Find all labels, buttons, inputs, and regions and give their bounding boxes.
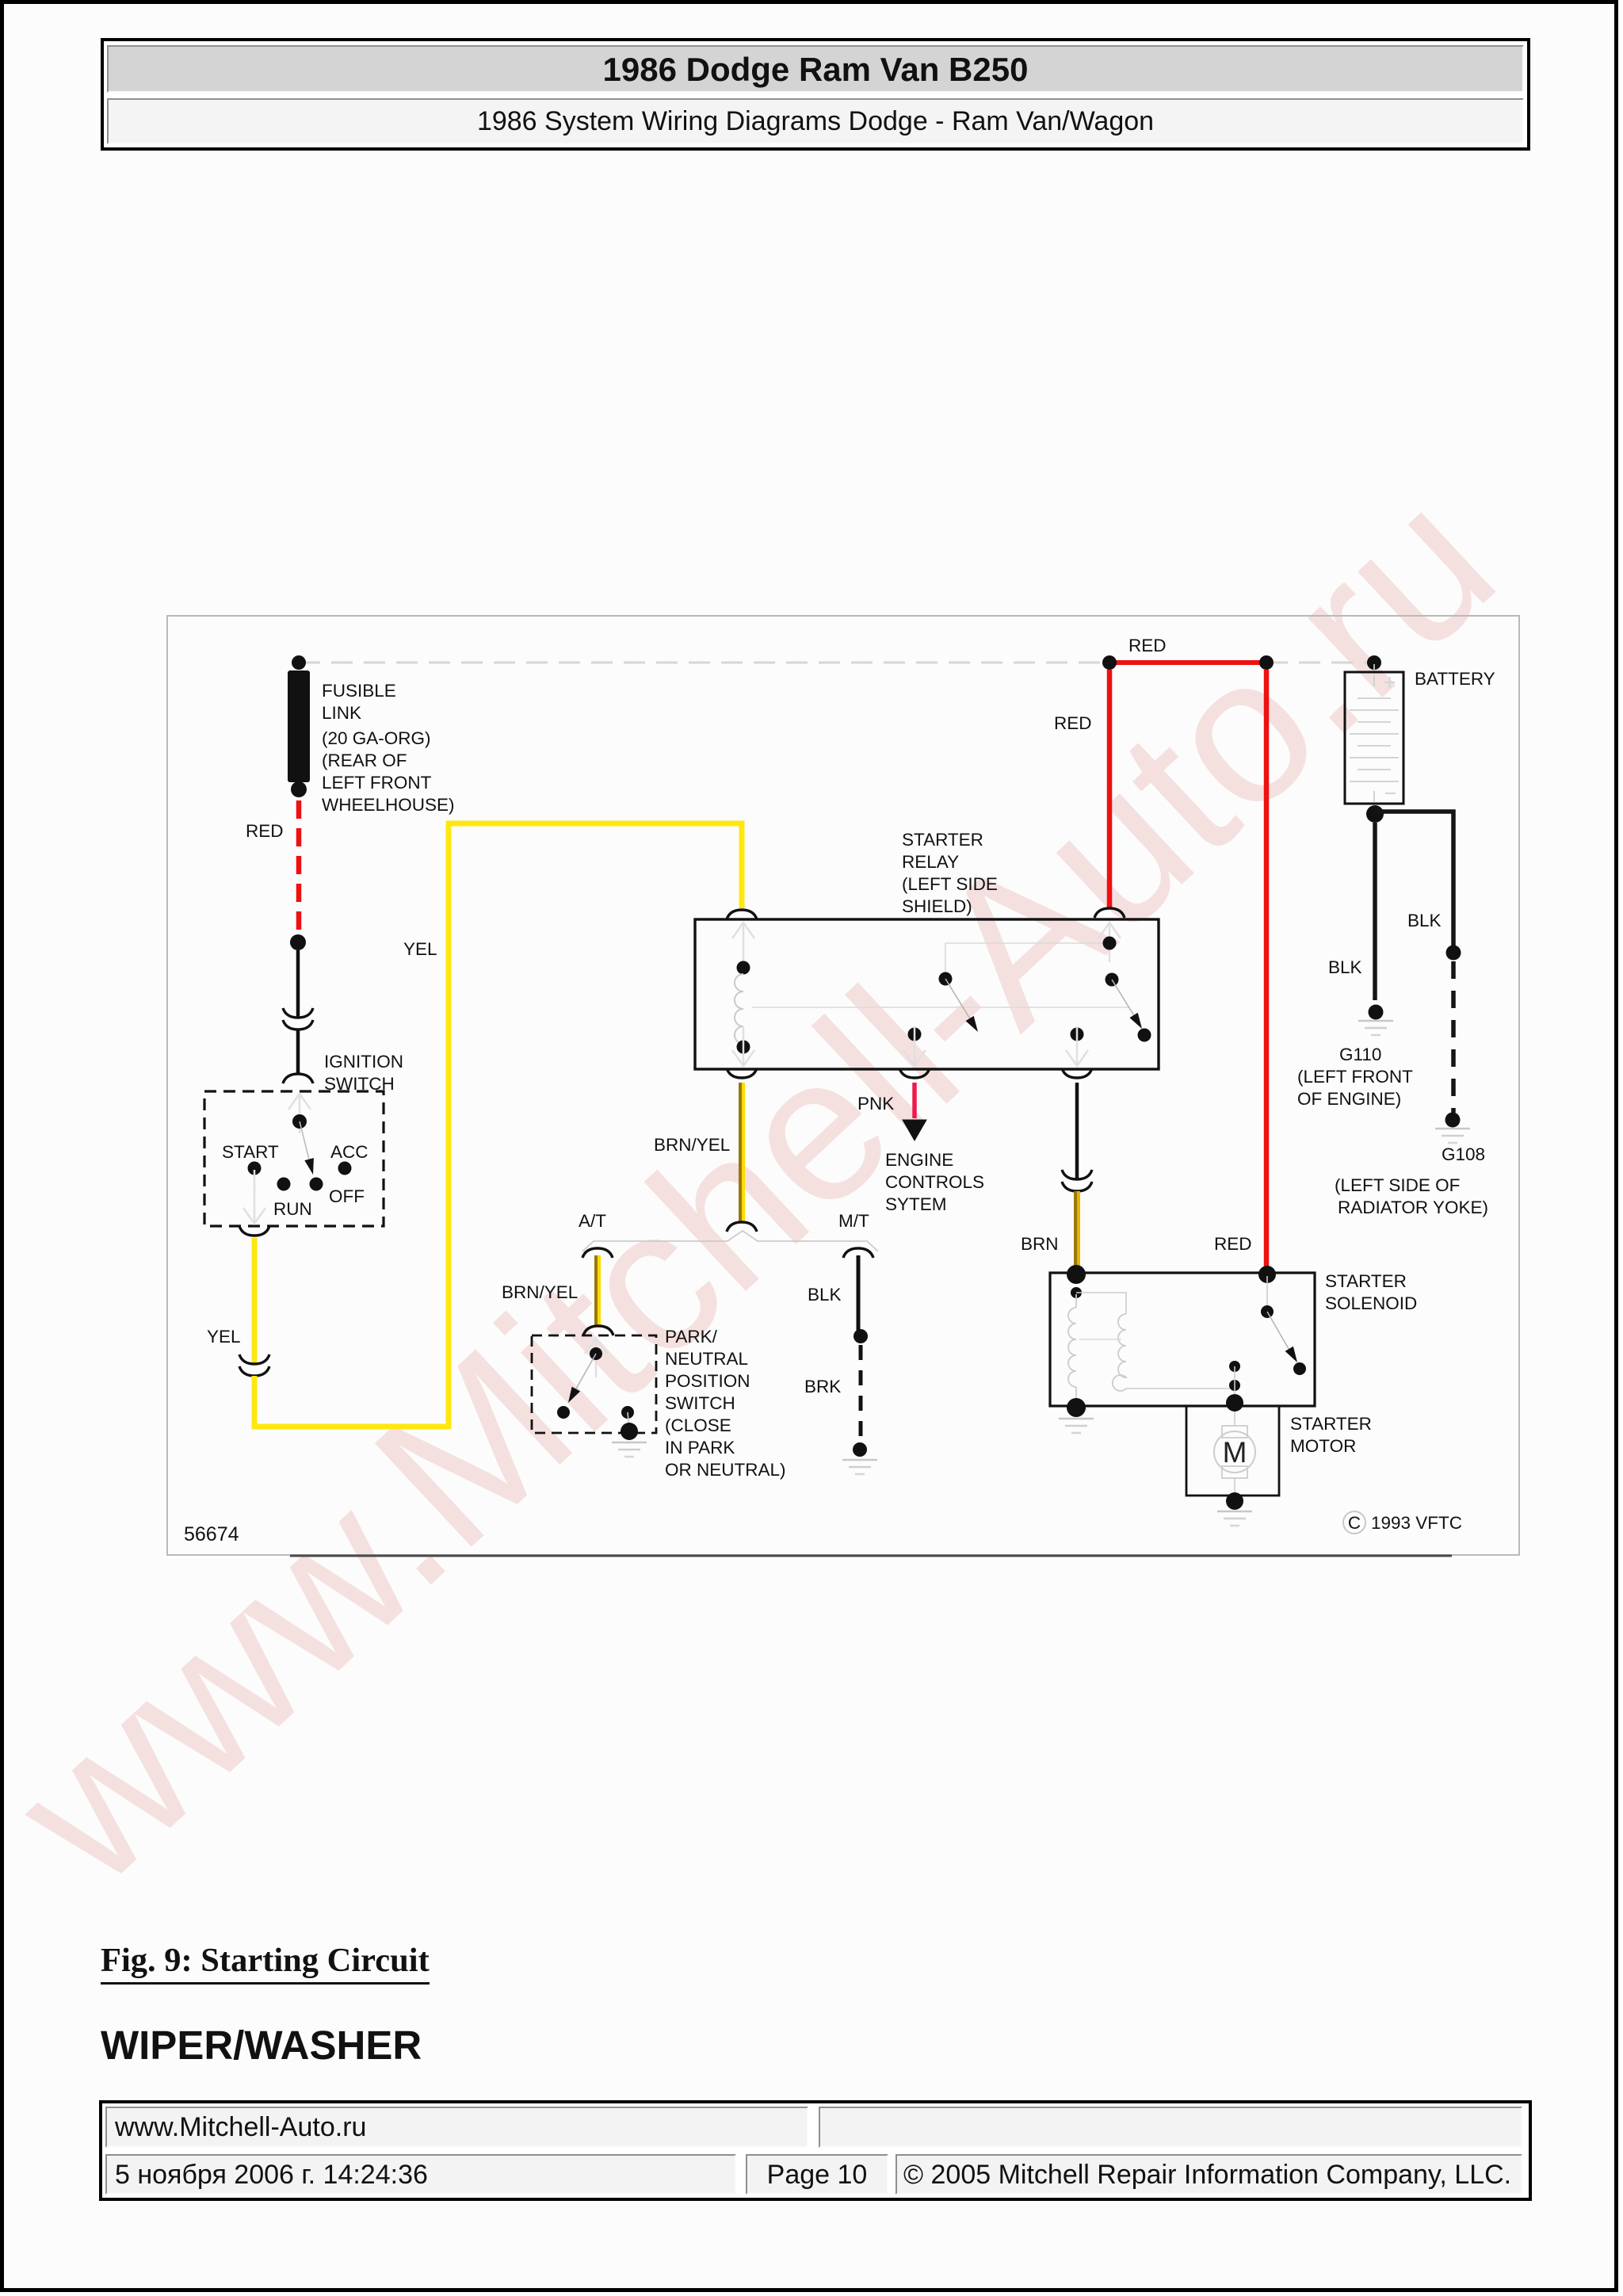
ground M/T	[842, 1460, 877, 1474]
svg-text:SOLENOID: SOLENOID	[1325, 1293, 1417, 1313]
wire: top dashed bus right	[1266, 662, 1374, 664]
wire RED down to relay	[1107, 670, 1113, 907]
connector PNK below relay	[899, 1068, 930, 1078]
svg-text:IN PARK: IN PARK	[665, 1438, 735, 1457]
solenoid coil 2	[1113, 1314, 1126, 1391]
svg-text:ENGINE: ENGINE	[885, 1150, 953, 1170]
svg-text:BRN/YEL: BRN/YEL	[654, 1135, 730, 1155]
svg-text:STARTER: STARTER	[1325, 1271, 1407, 1291]
starter solenoid box	[1050, 1273, 1315, 1406]
motor M circle	[1214, 1431, 1255, 1473]
wire BLK battery to right	[1377, 812, 1453, 946]
relay right switch arm	[1112, 980, 1135, 1017]
wire BRN/YEL A/T branch (two tone)	[594, 1255, 598, 1325]
P/N bottom dot	[621, 1423, 638, 1440]
node dot G110	[1369, 1005, 1384, 1020]
svg-text:C: C	[1348, 1513, 1361, 1533]
solenoid coil 2 out link	[1126, 1388, 1230, 1389]
motor brush bottom	[1222, 1466, 1247, 1478]
svg-text:BLK: BLK	[1407, 911, 1442, 930]
relay right input pin arrow	[1098, 923, 1121, 962]
svg-text:M/T: M/T	[838, 1211, 869, 1231]
node junction dot 2	[1259, 655, 1274, 670]
starter relay box	[695, 919, 1159, 1069]
node dot	[1446, 946, 1461, 961]
svg-text:STARTER: STARTER	[902, 830, 983, 850]
svg-text:RELAY: RELAY	[902, 852, 959, 872]
wire BLK relay to connector	[1075, 1083, 1079, 1179]
ground P/N	[612, 1442, 647, 1457]
relay BRN pin dot	[1071, 1028, 1084, 1041]
relay mid switch pivot dot	[939, 972, 953, 986]
starter motor box	[1186, 1406, 1279, 1496]
svg-text:RED: RED	[1128, 636, 1167, 655]
connector pair in-line BRN	[1062, 1170, 1092, 1179]
node dot G108	[1445, 1113, 1461, 1128]
svg-text:PARK/: PARK/	[665, 1327, 718, 1347]
connector below ignition switch	[239, 1226, 269, 1236]
svg-text:A/T: A/T	[579, 1211, 606, 1231]
svg-text:BRN/YEL: BRN/YEL	[502, 1282, 578, 1302]
fusible link FL	[292, 655, 306, 670]
relay coil tap line	[752, 1007, 1128, 1008]
relay coil pin arrow top	[732, 923, 754, 962]
svg-text:LEFT FRONT: LEFT FRONT	[322, 773, 432, 793]
wire YEL main run	[254, 823, 742, 1427]
P/N left contact dot	[557, 1406, 570, 1419]
solenoid switch arm	[1267, 1312, 1291, 1353]
wire: top dashed bus left	[299, 662, 1109, 664]
svg-text:(LEFT FRONT: (LEFT FRONT	[1297, 1067, 1413, 1087]
relay coil pin arrow bottom	[732, 1026, 754, 1066]
svg-text:1993 VFTC: 1993 VFTC	[1371, 1513, 1462, 1533]
WIPER/WASHER heading	[101, 2022, 422, 2069]
connector BRN/YEL at branch	[727, 1222, 757, 1232]
battery bottom dot	[1366, 805, 1384, 823]
connector at ignition switch	[283, 1074, 313, 1083]
A/T M/T branch bracket	[582, 1231, 878, 1251]
svg-text:NEUTRAL: NEUTRAL	[665, 1349, 748, 1369]
relay BRN pin arrow	[1066, 1026, 1088, 1066]
battery minus sign	[1385, 793, 1396, 794]
motor ground stem	[1234, 1478, 1235, 1499]
contact RUN dot	[277, 1178, 291, 1191]
arrow to engine controls	[903, 1120, 926, 1140]
solenoid coil mid link	[1079, 1339, 1121, 1340]
svg-text:BATTERY: BATTERY	[1415, 669, 1495, 689]
diagram inner border dark segment	[290, 1555, 1452, 1557]
park/neutral position switch box	[532, 1335, 656, 1433]
svg-text:M: M	[1223, 1436, 1247, 1469]
svg-text:RED: RED	[1214, 1234, 1252, 1254]
copyright stamp	[1343, 1511, 1365, 1534]
solenoid small node dot	[1071, 1287, 1082, 1298]
wire BRN/YEL (two tone)	[739, 1083, 742, 1221]
battery plus sign	[1384, 677, 1395, 688]
svg-text:PNK: PNK	[857, 1094, 894, 1114]
svg-text:G108: G108	[1442, 1144, 1485, 1164]
ground G108	[1435, 1129, 1470, 1143]
connector A/T branch	[582, 1248, 613, 1258]
svg-text:SHIELD): SHIELD)	[902, 896, 972, 916]
svg-text:YEL: YEL	[207, 1327, 241, 1347]
wire YEL from ignition switch	[252, 1238, 258, 1363]
svg-text:YEL: YEL	[403, 939, 437, 959]
solenoid BRN input dot	[1067, 1265, 1086, 1284]
svg-text:www.Mitchell-Auto.ru: www.Mitchell-Auto.ru	[0, 446, 1536, 1928]
solenoid switch stem	[1266, 1276, 1268, 1308]
P/N pivot dot	[590, 1347, 602, 1360]
connector YEL at relay	[727, 910, 757, 919]
solenoid switch end dot	[1293, 1362, 1306, 1375]
P/N ground link	[628, 1412, 629, 1430]
wire BLK battery to G110	[1373, 823, 1377, 1000]
relay right switch end dot	[1138, 1029, 1151, 1042]
connector M/T branch	[843, 1248, 873, 1258]
svg-text:56674: 56674	[184, 1523, 239, 1545]
svg-text:(LEFT SIDE: (LEFT SIDE	[902, 874, 998, 894]
relay right node dot	[1103, 937, 1117, 950]
battery plates	[1350, 675, 1399, 802]
svg-text:OFF: OFF	[329, 1186, 365, 1206]
svg-text:G110: G110	[1339, 1045, 1381, 1064]
solenoid coil 1	[1075, 1294, 1077, 1308]
svg-text:FUSIBLE: FUSIBLE	[322, 681, 396, 701]
wire RED top horizontal	[1109, 660, 1266, 665]
svg-text:RUN: RUN	[273, 1199, 312, 1219]
node dot	[854, 1329, 868, 1343]
switch pivot dot	[292, 1114, 307, 1129]
wire BRK dashed	[859, 1345, 863, 1442]
ground G110	[1358, 1021, 1393, 1035]
connector BRN/YEL below relay	[727, 1068, 757, 1078]
svg-text:STARTER: STARTER	[1290, 1414, 1372, 1434]
P/N switch arm	[575, 1354, 596, 1390]
relay switch link line	[945, 943, 1109, 979]
relay coil top dot	[737, 961, 750, 975]
wire BLK dashed to G108	[1451, 961, 1456, 1113]
svg-text:BLK: BLK	[808, 1285, 842, 1305]
svg-text:SWITCH: SWITCH	[665, 1393, 735, 1413]
header row 2	[107, 98, 1524, 144]
P/N pin arrow	[585, 1338, 607, 1377]
svg-text:(LEFT SIDE OF: (LEFT SIDE OF	[1335, 1175, 1460, 1195]
solenoid motor big dot	[1226, 1394, 1243, 1412]
contact OFF dot	[310, 1178, 323, 1191]
wire BRN to solenoid	[1074, 1191, 1077, 1268]
svg-text:OR NEUTRAL): OR NEUTRAL)	[665, 1460, 786, 1480]
ignition switch box	[204, 1091, 384, 1226]
relay mid switch arm	[945, 979, 971, 1020]
pin arrow (ignition input)	[288, 1094, 311, 1133]
node junction dot	[1102, 655, 1117, 670]
svg-text:START: START	[222, 1142, 279, 1162]
wire RED dashed (fusible link to ignition switch)	[296, 800, 302, 935]
solenoid motor node dots	[1229, 1361, 1240, 1372]
solenoid red input dot	[1258, 1266, 1276, 1283]
svg-text:BRK: BRK	[804, 1377, 841, 1396]
battery top dot	[1367, 655, 1381, 670]
switch arm	[300, 1121, 310, 1163]
relay PNK pin dot	[908, 1028, 922, 1041]
ground solenoid	[1059, 1419, 1094, 1433]
relay PNK pin arrow	[903, 1026, 926, 1066]
contact ACC dot	[338, 1162, 352, 1175]
header row 1	[107, 45, 1524, 93]
svg-text:ACC: ACC	[330, 1142, 369, 1162]
solenoid switch pivot dot	[1261, 1305, 1274, 1318]
relay right switch pivot dot	[1106, 973, 1119, 987]
battery B1	[1345, 672, 1403, 804]
solenoid bottom-left dot	[1067, 1398, 1086, 1417]
Fig caption	[101, 1941, 430, 1980]
svg-text:(REAR OF: (REAR OF	[322, 751, 407, 770]
node dot	[853, 1442, 867, 1457]
svg-text:CONTROLS: CONTROLS	[885, 1172, 984, 1192]
connector pair in-line	[283, 1008, 313, 1018]
header outer box	[101, 38, 1530, 151]
svg-text:LINK: LINK	[322, 703, 361, 723]
solenoid coil 2 link	[1076, 1293, 1126, 1314]
svg-text:WHEELHOUSE): WHEELHOUSE)	[322, 795, 455, 815]
connector RED at relay	[1094, 908, 1125, 918]
node dot	[290, 934, 306, 950]
svg-text:BRN: BRN	[1021, 1234, 1059, 1254]
svg-text:OF ENGINE): OF ENGINE)	[1297, 1089, 1401, 1109]
svg-text:RED: RED	[1054, 713, 1092, 733]
wire RED junction to solenoid	[1264, 670, 1270, 1270]
diagram frame	[167, 616, 1519, 1555]
motor ground dot	[1226, 1492, 1243, 1510]
wire black to connector	[296, 950, 300, 1018]
svg-text:BLK: BLK	[1328, 957, 1362, 977]
connector pair in-line YEL	[239, 1354, 269, 1364]
svg-text:IGNITION: IGNITION	[324, 1052, 403, 1072]
pin arrow START output	[243, 1184, 265, 1224]
P/N right contact dot	[621, 1406, 634, 1419]
footer outer box	[99, 2100, 1532, 2201]
wire PNK	[912, 1083, 917, 1118]
svg-text:RED: RED	[246, 821, 284, 841]
svg-text:MOTOR: MOTOR	[1290, 1436, 1356, 1456]
svg-text:POSITION: POSITION	[665, 1371, 750, 1391]
wire BLK M/T	[857, 1255, 861, 1332]
svg-text:SYTEM: SYTEM	[885, 1194, 947, 1214]
ground motor	[1217, 1511, 1252, 1526]
wire black to ignition switch	[296, 1030, 300, 1073]
connector BRN below relay	[1062, 1068, 1092, 1078]
relay coil	[735, 974, 743, 1044]
motor brush top	[1222, 1426, 1247, 1438]
svg-text:(20 GA-ORG): (20 GA-ORG)	[322, 728, 431, 748]
contact START dot	[248, 1162, 262, 1175]
relay coil bottom dot	[737, 1041, 750, 1054]
svg-text:(CLOSE: (CLOSE	[665, 1415, 731, 1435]
battery top stem	[1373, 664, 1375, 674]
connector at park/neutral switch	[583, 1326, 613, 1335]
svg-text:RADIATOR YOKE): RADIATOR YOKE)	[1338, 1198, 1488, 1217]
